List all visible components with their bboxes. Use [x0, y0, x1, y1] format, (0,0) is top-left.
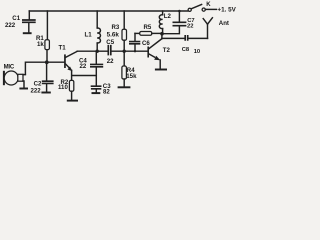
- ground (C2): [41, 92, 50, 94]
- ground (R4): [118, 86, 131, 88]
- inductor L1: [85, 11, 101, 51]
- resistor R3: [107, 11, 127, 51]
- svg-text:15k: 15k: [126, 73, 137, 80]
- wire collector to tank: [161, 34, 163, 39]
- wire top supply rail: [29, 10, 188, 12]
- wire T2 emitter: [159, 60, 161, 68]
- wire T1 collector: [77, 50, 107, 52]
- ground (C3): [92, 92, 101, 94]
- svg-text:T2: T2: [163, 47, 171, 54]
- capacitor C3: [91, 83, 112, 96]
- ground (C1): [23, 32, 32, 34]
- resistor R2: [58, 79, 74, 100]
- capacitor C6: [129, 33, 150, 51]
- inductor L2: [159, 11, 171, 33]
- node base junction dot: [45, 60, 49, 64]
- svg-text:82: 82: [103, 89, 110, 96]
- transistor T1: [59, 45, 78, 72]
- svg-text:110: 110: [58, 84, 68, 91]
- switch K: [188, 2, 216, 11]
- resistor R1: [36, 11, 49, 62]
- svg-text:22: 22: [187, 23, 193, 29]
- svg-text:10: 10: [194, 49, 200, 55]
- resistor R4: [122, 51, 137, 86]
- svg-text:+1. 5V: +1. 5V: [217, 7, 236, 14]
- node R3/R4 junction dot: [123, 50, 126, 53]
- capacitor C2: [31, 62, 54, 94]
- svg-text:C2: C2: [34, 80, 42, 87]
- microphone MIC: [3, 64, 26, 87]
- ground (R2): [67, 100, 78, 102]
- svg-text:222: 222: [5, 22, 16, 29]
- svg-text:22: 22: [80, 63, 87, 70]
- transistor T2: [147, 39, 170, 61]
- svg-text:1k: 1k: [37, 41, 44, 48]
- svg-text:R5: R5: [144, 24, 152, 31]
- node C6 junction dot: [134, 50, 136, 52]
- wire T1 base: [25, 62, 64, 74]
- svg-text:C1: C1: [12, 15, 20, 22]
- svg-text:R3: R3: [112, 24, 120, 31]
- resistor R5: [135, 24, 161, 35]
- capacitor C4: [79, 51, 103, 86]
- ground (T2 emitter): [155, 69, 167, 71]
- capacitor C7: [173, 11, 195, 29]
- svg-text:C5: C5: [106, 39, 114, 46]
- node tank junction dot: [160, 32, 164, 36]
- antenna Ant: [203, 18, 229, 39]
- svg-text:L1: L1: [85, 32, 93, 39]
- capacitor C1: [5, 11, 36, 32]
- svg-text:MIC: MIC: [4, 64, 15, 70]
- svg-text:22: 22: [107, 58, 114, 65]
- svg-text:5.6k: 5.6k: [107, 31, 120, 38]
- wire tank to C7: [162, 26, 179, 33]
- svg-text:C8: C8: [182, 47, 190, 53]
- svg-text:222: 222: [31, 88, 42, 95]
- svg-text:L2: L2: [164, 13, 172, 20]
- svg-text:T1: T1: [59, 45, 67, 52]
- svg-text:K: K: [206, 2, 211, 8]
- node C7 rail dot: [178, 10, 181, 13]
- capacitor C5: [106, 39, 147, 65]
- wire T1 emitter: [72, 70, 97, 80]
- svg-text:Ant: Ant: [219, 20, 229, 27]
- node L1/C4 junction dot: [96, 50, 99, 53]
- ground (MIC): [19, 88, 28, 90]
- capacitor C8: [162, 35, 208, 55]
- svg-text:C6: C6: [142, 40, 150, 47]
